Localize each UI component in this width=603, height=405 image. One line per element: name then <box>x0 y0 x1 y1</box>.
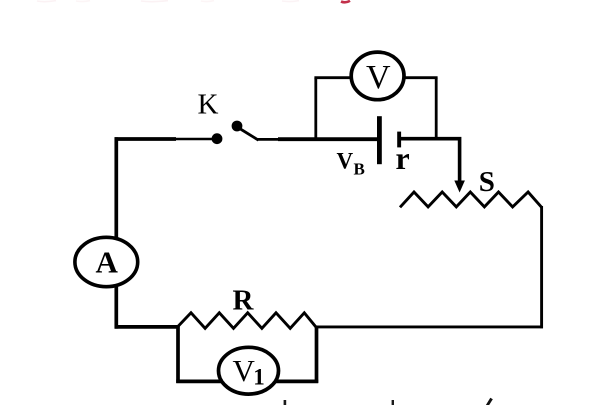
battery V_B long plate <box>377 116 382 164</box>
wire: top horizontal from corner to switch contact <box>115 137 176 141</box>
wire: bottom left horizontal to resistor R <box>115 325 178 329</box>
svg-text:B: B <box>354 160 365 179</box>
node: voltmeter loop left junction, vertical up <box>314 78 317 141</box>
ammeter A circle <box>75 237 138 286</box>
switch K lever <box>238 128 259 141</box>
svg-text:R: R <box>233 285 255 317</box>
svg-text:S: S <box>479 166 495 198</box>
wire: V1 loop left horizontal <box>176 380 223 384</box>
switch K pivot dot (upper) <box>232 121 243 132</box>
wire: left vertical from top-left corner down to ammeter <box>114 137 118 239</box>
svg-text:1: 1 <box>253 365 265 390</box>
switch K contact dot (left) <box>212 133 223 144</box>
wire: V1 loop right horizontal <box>276 380 319 384</box>
svg-text:V: V <box>337 149 354 174</box>
svg-text:K: K <box>198 89 219 121</box>
wire: battery to top-right corner <box>401 137 461 181</box>
wire: ammeter bottom to bottom wire <box>114 286 118 329</box>
resistor R zigzag <box>177 313 316 329</box>
stray cut-off black text at bottom edge <box>284 400 287 405</box>
svg-text:A: A <box>96 245 119 280</box>
svg-text:r: r <box>396 140 410 176</box>
battery r short plate <box>397 132 401 148</box>
wire: V1 loop right vertical <box>315 326 319 383</box>
wire: voltmeter right terminal <box>404 76 438 79</box>
stray cut-off red text at top edge <box>341 1 350 3</box>
voltmeter V1 circle <box>219 347 279 394</box>
svg-text:V: V <box>366 59 391 96</box>
wire: voltmeter loop right vertical down to main wire <box>435 78 438 139</box>
wire: right vertical from rheostat down to bottom wire <box>540 206 543 328</box>
svg-text:V: V <box>233 353 256 388</box>
rheostat wiper arrow head <box>454 181 465 193</box>
wire: V1 loop left vertical <box>176 326 180 383</box>
rheostat S zigzag <box>400 192 542 207</box>
voltmeter V circle <box>351 52 404 100</box>
wire: bottom right horizontal <box>315 325 543 328</box>
wire: to voltmeter left terminal <box>314 76 352 79</box>
wire: switch to battery positive plate <box>257 138 278 141</box>
